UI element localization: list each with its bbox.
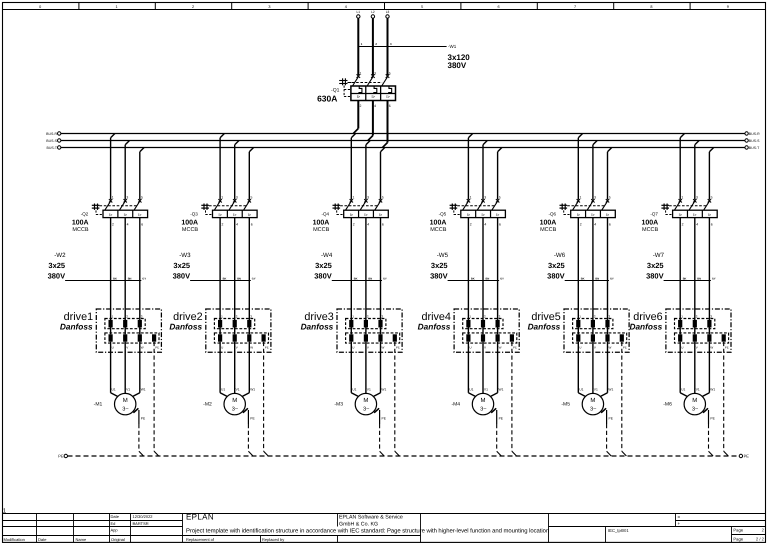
svg-text:380V: 380V [547, 271, 565, 280]
svg-text:BK: BK [471, 277, 475, 280]
svg-text:PE: PE [499, 416, 504, 420]
svg-text:4: 4 [236, 223, 238, 227]
svg-text:380V: 380V [314, 271, 332, 280]
svg-text:-M4: -M4 [451, 402, 460, 408]
wire M2 PE to PE bus [243, 408, 256, 456]
svg-text:BUS-R: BUS-R [749, 132, 760, 136]
svg-text:PE: PE [513, 346, 517, 350]
svg-text:Original: Original [111, 537, 125, 542]
svg-text:Danfoss: Danfoss [60, 322, 93, 332]
svg-text:Page: Page [733, 536, 743, 541]
wire drive3 to M3 phase 1 [351, 342, 358, 397]
svg-text:BUS-T: BUS-T [47, 146, 58, 150]
svg-text:V: V [236, 346, 238, 350]
wire drive4 to M4 phase 2 [482, 342, 484, 394]
wire Q6 to drive5 phase 2 [592, 218, 594, 320]
svg-text:BN: BN [237, 277, 241, 280]
svg-text:-W1: -W1 [448, 44, 457, 49]
wire drive3 PE to PE bus [395, 342, 400, 456]
wire Q7 to drive6 phase 3 [708, 218, 710, 320]
svg-text:Date: Date [111, 514, 120, 519]
svg-text:I>: I> [693, 213, 697, 217]
svg-text:100A: 100A [181, 219, 198, 226]
svg-text:I>: I> [124, 213, 128, 217]
svg-text:I>: I> [233, 213, 237, 217]
svg-text:4: 4 [374, 104, 376, 108]
wire busbar tap branch 6 phase 1 [680, 134, 684, 200]
motor M1 3~ [94, 387, 146, 415]
busbar BUS-R [46, 132, 760, 136]
wire drive3 internal phase 2 [365, 328, 367, 335]
svg-text:L1: L1 [357, 10, 361, 14]
svg-text:I>: I> [138, 213, 142, 217]
svg-text:Danfoss: Danfoss [301, 322, 334, 332]
svg-text:Modification: Modification [4, 537, 25, 542]
wire busbar tap branch 4 phase 3 [498, 148, 502, 200]
svg-text:EPLAN: EPLAN [186, 513, 214, 522]
svg-text:3~: 3~ [590, 407, 597, 413]
wire drive3 internal phase 3 [380, 328, 382, 335]
svg-text:4: 4 [345, 5, 347, 9]
svg-text:BUS-R: BUS-R [46, 132, 57, 136]
svg-text:W1: W1 [710, 387, 715, 391]
wire feeder L1 [357, 19, 359, 76]
svg-text:3x25: 3x25 [48, 261, 65, 270]
svg-text:12/30/2022: 12/30/2022 [133, 514, 154, 519]
svg-text:M: M [363, 397, 368, 404]
svg-text:2 / 2: 2 / 2 [756, 536, 765, 541]
svg-text:W: W [141, 346, 144, 350]
svg-text:U: U [112, 346, 114, 350]
svg-text:-W2: -W2 [54, 252, 66, 259]
wire busbar tap branch 1 phase 2 [125, 141, 129, 200]
svg-text:W1: W1 [608, 387, 613, 391]
svg-text:I>: I> [708, 213, 712, 217]
svg-text:3x25: 3x25 [647, 261, 664, 270]
svg-text:+: + [678, 521, 681, 526]
drive5 Danfoss frequency converter [528, 309, 630, 352]
drive3 Danfoss frequency converter [301, 309, 403, 352]
svg-text:MCCB: MCCB [540, 227, 557, 233]
svg-text:3: 3 [382, 315, 384, 319]
svg-text:Danfoss: Danfoss [418, 322, 451, 332]
svg-text:V1: V1 [236, 387, 240, 391]
svg-text:MCCB: MCCB [430, 227, 447, 233]
wire M4 PE to PE bus [491, 408, 504, 456]
svg-text:I>: I> [109, 213, 113, 217]
svg-text:W: W [499, 346, 502, 350]
wire feeder L3 [387, 19, 389, 76]
svg-text:3x25: 3x25 [315, 261, 332, 270]
wire drive6 to M6 phase 3 [702, 342, 709, 397]
wire Q1 pole 1 to busbar [353, 101, 358, 134]
svg-text:-Q3: -Q3 [190, 212, 198, 217]
wire busbar tap branch 4 phase 1 [468, 134, 472, 200]
drive4 Danfoss frequency converter [418, 309, 520, 352]
wire Q2 to drive1 phase 1 [110, 218, 112, 320]
svg-text:Project template with identifi: Project template with identification str… [186, 527, 549, 534]
svg-text:PE: PE [623, 346, 627, 350]
svg-text:GY: GY [500, 277, 504, 280]
wire drive5 internal phase 1 [577, 328, 579, 335]
cable W2 3x25 380V [48, 252, 147, 281]
cable W1 3x120 380V [358, 42, 470, 70]
svg-text:V1: V1 [484, 387, 488, 391]
op Q3 circuit breaker 100A MCCB [181, 196, 257, 234]
svg-text:I>: I> [577, 213, 581, 217]
op Q1 circuit breaker 630A [317, 72, 395, 108]
svg-text:PE: PE [744, 454, 750, 459]
wire Q1 pole 2 to busbar [368, 101, 373, 141]
svg-text:3: 3 [250, 315, 252, 319]
svg-text:I>: I> [350, 213, 354, 217]
wire Q2 to drive1 phase 2 [124, 218, 126, 320]
svg-text:PE: PE [725, 346, 729, 350]
wire drive3 internal phase 1 [350, 328, 352, 335]
wire Q7 to drive6 phase 2 [694, 218, 696, 320]
wire busbar tap branch 3 phase 1 [351, 134, 355, 200]
wire M5 PE to PE bus [601, 408, 614, 456]
wire drive1 to M1 phase 2 [124, 342, 126, 394]
wire Q3 to drive2 phase 2 [234, 218, 236, 320]
svg-text:W: W [710, 346, 713, 350]
wire drive2 to M2 phase 3 [242, 342, 249, 397]
svg-text:I>: I> [379, 213, 383, 217]
svg-text:EPLAN Software & Service: EPLAN Software & Service [339, 514, 403, 520]
wire drive6 to M6 phase 1 [680, 342, 687, 397]
svg-text:PE: PE [250, 416, 255, 420]
wire Q5 to drive4 phase 2 [482, 218, 484, 320]
svg-text:PE: PE [710, 416, 715, 420]
svg-text:L3: L3 [386, 10, 390, 14]
cable W5 3x25 380V [430, 252, 504, 281]
wire drive5 internal phase 3 [607, 328, 609, 335]
svg-text:Name: Name [76, 537, 87, 542]
busbar BUS-T [47, 146, 761, 150]
svg-text:Page: Page [733, 528, 743, 533]
terminal L2 [371, 10, 375, 18]
svg-text:3~: 3~ [480, 407, 487, 413]
svg-text:6: 6 [498, 5, 500, 9]
svg-text:3~: 3~ [232, 407, 239, 413]
cable W6 3x25 380V [547, 252, 614, 281]
wire Q6 to drive5 phase 3 [607, 218, 609, 320]
svg-text:3: 3 [710, 315, 712, 319]
cable W3 3x25 380V [173, 252, 256, 281]
svg-text:-W5: -W5 [437, 252, 449, 259]
svg-text:IEC_tpl001: IEC_tpl001 [608, 528, 629, 533]
svg-text:2: 2 [470, 223, 472, 227]
wire busbar tap branch 3 phase 3 [381, 148, 385, 200]
svg-text:3: 3 [609, 315, 611, 319]
svg-text:380V: 380V [430, 271, 448, 280]
wire drive2 internal phase 2 [234, 328, 236, 335]
wire drive6 to M6 phase 2 [694, 342, 696, 394]
wire Q6 to drive5 phase 1 [577, 218, 579, 320]
wire drive4 to M4 phase 1 [468, 342, 475, 397]
svg-text:-M5: -M5 [561, 402, 570, 408]
svg-text:2: 2 [126, 315, 128, 319]
svg-text:I>: I> [357, 94, 361, 99]
svg-text:8: 8 [650, 5, 652, 9]
svg-text:3x25: 3x25 [431, 261, 448, 270]
svg-text:100A: 100A [641, 219, 658, 226]
svg-text:I>: I> [496, 213, 500, 217]
svg-text:100A: 100A [430, 219, 447, 226]
svg-text:-M2: -M2 [203, 402, 212, 408]
svg-text:U: U [579, 346, 581, 350]
svg-text:3x25: 3x25 [548, 261, 565, 270]
svg-text:BK: BK [683, 277, 687, 280]
svg-text:-M6: -M6 [663, 402, 672, 408]
cable W4 3x25 380V [314, 252, 387, 281]
svg-text:2: 2 [484, 315, 486, 319]
svg-text:BUS-S: BUS-S [46, 139, 57, 143]
svg-text:6: 6 [389, 104, 391, 108]
wire drive3 to M3 phase 2 [365, 342, 367, 394]
svg-text:1: 1 [361, 42, 363, 46]
drive6 Danfoss frequency converter [629, 309, 731, 352]
svg-text:Date: Date [38, 537, 47, 542]
svg-text:W: W [382, 346, 385, 350]
svg-text:3: 3 [390, 42, 392, 46]
svg-text:-W6: -W6 [554, 252, 566, 259]
svg-text:BARTSR: BARTSR [133, 521, 149, 526]
svg-text:W1: W1 [381, 387, 386, 391]
wire busbar tap branch 5 phase 2 [593, 141, 597, 200]
svg-text:380V: 380V [646, 271, 664, 280]
svg-text:380V: 380V [173, 271, 191, 280]
svg-text:3: 3 [499, 315, 501, 319]
svg-text:100A: 100A [313, 219, 330, 226]
svg-text:BK: BK [354, 277, 358, 280]
wire busbar tap branch 6 phase 3 [709, 148, 713, 200]
svg-text:I>: I> [364, 213, 368, 217]
svg-text:M: M [692, 397, 697, 404]
svg-text:2: 2 [112, 223, 114, 227]
terminal L3 [386, 10, 390, 18]
svg-text:4: 4 [484, 223, 486, 227]
svg-text:MCCB: MCCB [313, 227, 330, 233]
svg-text:Danfoss: Danfoss [169, 322, 202, 332]
drive2 Danfoss frequency converter [169, 309, 271, 352]
svg-text:3x25: 3x25 [173, 261, 190, 270]
wire M6 PE to PE bus [703, 408, 716, 456]
svg-text:PE: PE [141, 416, 146, 420]
svg-text:2: 2 [236, 315, 238, 319]
svg-text:PE: PE [155, 346, 159, 350]
svg-text:1: 1 [116, 5, 118, 9]
op Q6 circuit breaker 100A MCCB [540, 196, 616, 234]
wire busbar tap branch 4 phase 2 [483, 141, 487, 200]
wire drive2 to M2 phase 2 [234, 342, 236, 394]
svg-text:BN: BN [486, 277, 490, 280]
wire busbar tap branch 2 phase 2 [235, 141, 239, 200]
op Q4 circuit breaker 100A MCCB [313, 196, 389, 234]
svg-text:W: W [250, 346, 253, 350]
svg-text:0: 0 [39, 5, 41, 9]
svg-text:GY: GY [252, 277, 256, 280]
wire Q3 to drive2 phase 3 [248, 218, 250, 320]
wire drive1 to M1 phase 1 [111, 342, 118, 397]
wire feeder L2 [372, 19, 374, 76]
svg-text:1: 1 [579, 315, 581, 319]
wire drive6 internal phase 1 [679, 328, 681, 335]
svg-text:-W7: -W7 [653, 252, 665, 259]
svg-text:PE: PE [265, 346, 269, 350]
svg-text:630A: 630A [317, 93, 337, 103]
svg-text:PE: PE [396, 346, 400, 350]
svg-text:V: V [594, 346, 596, 350]
svg-text:2: 2 [762, 528, 765, 533]
svg-text:App: App [111, 528, 119, 533]
svg-text:2: 2 [594, 315, 596, 319]
svg-text:3~: 3~ [122, 407, 129, 413]
svg-text:U1: U1 [681, 387, 685, 391]
wire Q3 to drive2 phase 1 [219, 218, 221, 320]
wire M3 PE to PE bus [374, 408, 387, 456]
wire drive1 to M1 phase 3 [133, 342, 140, 397]
svg-text:U1: U1 [352, 387, 356, 391]
svg-text:W: W [609, 346, 612, 350]
svg-text:V1: V1 [126, 387, 130, 391]
svg-text:-M3: -M3 [334, 402, 343, 408]
wire busbar tap branch 6 phase 2 [695, 141, 699, 200]
svg-text:BUS-S: BUS-S [749, 139, 760, 143]
wire drive5 to M5 phase 3 [600, 342, 607, 397]
svg-text:V1: V1 [696, 387, 700, 391]
svg-text:U: U [681, 346, 683, 350]
wire drive1 internal phase 2 [124, 328, 126, 335]
svg-text:=: = [678, 514, 681, 519]
wire Q5 to drive4 phase 1 [467, 218, 469, 320]
svg-text:BUS-T: BUS-T [749, 146, 760, 150]
svg-text:BK: BK [113, 277, 117, 280]
PE bus [58, 454, 749, 459]
svg-text:BN: BN [697, 277, 701, 280]
svg-text:100A: 100A [72, 219, 89, 226]
svg-text:I>: I> [219, 213, 223, 217]
wire drive4 internal phase 1 [467, 328, 469, 335]
svg-text:-Q4: -Q4 [321, 212, 329, 217]
svg-text:V1: V1 [594, 387, 598, 391]
svg-text:W1: W1 [141, 387, 146, 391]
svg-text:-W4: -W4 [321, 252, 333, 259]
svg-text:MCCB: MCCB [182, 227, 199, 233]
svg-text:1: 1 [112, 315, 114, 319]
wire drive3 to M3 phase 3 [373, 342, 380, 397]
wire busbar tap branch 5 phase 3 [608, 148, 612, 200]
svg-text:U: U [352, 346, 354, 350]
svg-text:3~: 3~ [363, 407, 370, 413]
svg-text:PE: PE [382, 416, 387, 420]
title block [2, 513, 766, 543]
svg-text:380V: 380V [448, 61, 467, 70]
svg-text:I>: I> [467, 213, 471, 217]
wire drive5 internal phase 2 [592, 328, 594, 335]
wire drive6 internal phase 3 [708, 328, 710, 335]
wire drive5 to M5 phase 2 [592, 342, 594, 394]
wire drive1 internal phase 3 [139, 328, 141, 335]
wire busbar tap branch 2 phase 3 [249, 148, 253, 200]
wire drive5 PE to PE bus [622, 342, 627, 456]
svg-text:U1: U1 [221, 387, 225, 391]
wire drive2 to M2 phase 1 [220, 342, 227, 397]
svg-text:3: 3 [141, 315, 143, 319]
motor M6 3~ [663, 387, 715, 415]
wire drive2 PE to PE bus [264, 342, 269, 456]
svg-text:I>: I> [591, 213, 595, 217]
svg-text:4: 4 [127, 223, 129, 227]
wire Q4 to drive3 phase 1 [350, 218, 352, 320]
svg-text:M: M [232, 397, 237, 404]
svg-text:U1: U1 [579, 387, 583, 391]
svg-text:V: V [696, 346, 698, 350]
wire drive2 internal phase 3 [248, 328, 250, 335]
svg-text:6: 6 [609, 223, 611, 227]
svg-text:2: 2 [375, 42, 377, 46]
svg-text:GY: GY [610, 277, 614, 280]
svg-text:1: 1 [681, 315, 683, 319]
svg-text:BK: BK [581, 277, 585, 280]
drive1 Danfoss frequency converter [60, 309, 162, 352]
svg-text:2: 2 [696, 315, 698, 319]
svg-text:W1: W1 [499, 387, 504, 391]
svg-text:W1: W1 [250, 387, 255, 391]
wire drive4 to M4 phase 3 [490, 342, 497, 397]
busbar BUS-S [46, 139, 760, 143]
svg-text:4: 4 [367, 223, 369, 227]
svg-text:GY: GY [712, 277, 716, 280]
svg-text:M: M [123, 397, 128, 404]
svg-text:1: 1 [469, 315, 471, 319]
svg-text:GY: GY [383, 277, 387, 280]
svg-text:-Q2: -Q2 [81, 212, 89, 217]
svg-text:L2: L2 [371, 10, 375, 14]
wire busbar tap branch 1 phase 3 [140, 148, 144, 200]
svg-text:V: V [367, 346, 369, 350]
svg-text:U1: U1 [469, 387, 473, 391]
wire Q2 to drive1 phase 3 [139, 218, 141, 320]
svg-text:I>: I> [371, 94, 375, 99]
motor M5 3~ [561, 387, 613, 415]
svg-text:M: M [481, 397, 486, 404]
svg-text:BK: BK [223, 277, 227, 280]
svg-text:I>: I> [481, 213, 485, 217]
svg-text:-Q6: -Q6 [548, 212, 556, 217]
svg-text:I>: I> [606, 213, 610, 217]
svg-text:U: U [469, 346, 471, 350]
wire busbar tap branch 2 phase 1 [220, 134, 224, 200]
svg-text:4: 4 [594, 223, 596, 227]
svg-text:I>: I> [248, 213, 252, 217]
wire drive5 to M5 phase 1 [578, 342, 585, 397]
svg-text:6: 6 [711, 223, 713, 227]
op Q5 circuit breaker 100A MCCB [430, 196, 506, 234]
motor M3 3~ [334, 387, 386, 415]
motor M2 3~ [203, 387, 255, 415]
svg-text:6: 6 [251, 223, 253, 227]
svg-text:2: 2 [682, 223, 684, 227]
svg-text:100A: 100A [540, 219, 557, 226]
svg-text:MCCB: MCCB [72, 227, 89, 233]
svg-text:2: 2 [222, 223, 224, 227]
svg-text:1: 1 [352, 315, 354, 319]
wire Q5 to drive4 phase 3 [497, 218, 499, 320]
wire drive4 internal phase 3 [497, 328, 499, 335]
svg-text:V1: V1 [367, 387, 371, 391]
motor M4 3~ [451, 387, 503, 415]
